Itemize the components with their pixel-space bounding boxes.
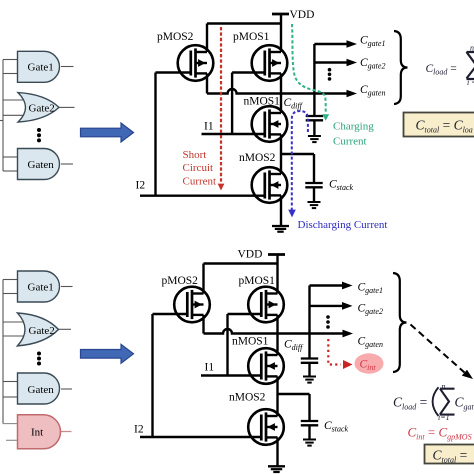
svg-text:Gate1: Gate1: [28, 62, 54, 74]
svg-text:Gate2: Gate2: [29, 325, 55, 337]
svg-text:Discharging Current: Discharging Current: [298, 219, 388, 231]
svg-text:nMOS1: nMOS1: [244, 96, 281, 108]
svg-text:pMOS2: pMOS2: [157, 31, 194, 43]
svg-text:I2: I2: [134, 424, 144, 436]
svg-text:i =: i =: [467, 78, 474, 87]
svg-text:Current: Current: [183, 176, 217, 188]
svg-text:Gaten: Gaten: [28, 384, 55, 396]
svg-text:n: n: [442, 382, 446, 391]
svg-text:VDD: VDD: [238, 249, 263, 261]
svg-text:nMOS1: nMOS1: [232, 336, 269, 348]
svg-text:VDD: VDD: [290, 9, 315, 21]
svg-text:Charging: Charging: [333, 121, 374, 133]
svg-text:I1: I1: [205, 362, 215, 374]
svg-text:n: n: [470, 44, 474, 53]
svg-text:pMOS1: pMOS1: [233, 31, 270, 43]
svg-text:pMOS2: pMOS2: [162, 275, 199, 287]
svg-text:Gate2: Gate2: [29, 102, 55, 114]
svg-text:i=1: i=1: [438, 413, 450, 422]
svg-text:Int: Int: [31, 427, 43, 439]
svg-text:Circuit: Circuit: [183, 162, 214, 174]
svg-text:Gate1: Gate1: [28, 282, 54, 294]
svg-text:nMOS2: nMOS2: [229, 392, 266, 404]
svg-text:nMOS2: nMOS2: [239, 152, 276, 164]
svg-text:I2: I2: [136, 180, 146, 192]
svg-text:pMOS1: pMOS1: [239, 275, 276, 287]
svg-text:Current: Current: [333, 136, 367, 148]
svg-text:I1: I1: [204, 121, 214, 133]
svg-text:Gaten: Gaten: [28, 159, 55, 171]
svg-text:Short: Short: [183, 149, 207, 161]
